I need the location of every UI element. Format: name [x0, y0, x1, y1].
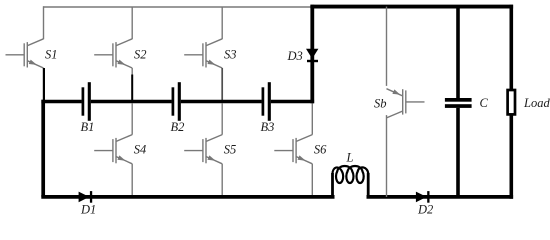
svg-text:L: L [346, 151, 354, 165]
transistor Sb (mirrored) [387, 89, 425, 118]
capacitor C [445, 5, 472, 197]
diode D3 [306, 49, 318, 62]
svg-text:D3: D3 [287, 49, 303, 63]
inductor L [333, 166, 369, 198]
wire: S3 collector vertical [221, 7, 223, 39]
wire: S1 collector vertical [43, 6, 45, 39]
wire: left branch vertical (thick) battery minus to bottom rail [41, 100, 45, 197]
wire: bottom rail left segment (thick) [41, 195, 334, 199]
wire: top rail (thin gray) from S1 to D3 branch [43, 6, 311, 8]
wire: S1 emitter to battery line (black) [43, 68, 45, 101]
wire: battery line down to S5 collector [221, 103, 223, 135]
svg-text:C: C [480, 96, 489, 110]
wire: Sb top to rail [386, 7, 388, 86]
transistor S1 [6, 39, 44, 68]
transistor S4 [94, 135, 132, 164]
svg-text:S1: S1 [45, 48, 58, 62]
transistor S3 [184, 39, 222, 68]
svg-text:S2: S2 [134, 48, 147, 62]
wire: S2 emitter to battery line [131, 68, 133, 76]
battery B3 [262, 82, 271, 121]
svg-text:B2: B2 [171, 120, 185, 134]
svg-text:B1: B1 [81, 120, 95, 134]
wire: S3 emitter to battery line [221, 68, 223, 101]
transistor S2 [94, 39, 132, 68]
wire: top rail thick black [310, 5, 513, 9]
wire: S6 emitter to bottom rail [311, 164, 313, 197]
svg-text:S4: S4 [134, 143, 147, 157]
wire: D3 to top rail (thick) [310, 5, 314, 50]
resistor Load [508, 5, 515, 199]
svg-text:D1: D1 [80, 203, 96, 217]
transistor S5 [184, 135, 222, 164]
wire: battery line down to S4 collector [131, 103, 133, 135]
svg-text:S3: S3 [224, 48, 237, 62]
battery B2 [172, 82, 181, 121]
transistor S6 [274, 135, 312, 164]
wire: bottom rail right segment (thick) [367, 195, 514, 199]
svg-text:Sb: Sb [374, 97, 387, 111]
diode D1 [79, 191, 93, 203]
svg-text:Load: Load [523, 96, 550, 110]
svg-text:D2: D2 [417, 203, 433, 217]
wire: Sb bottom to rail [386, 115, 388, 197]
wire: D3 junction down to S6 collector [311, 103, 313, 135]
wire: S5 emitter to bottom rail [221, 164, 223, 197]
wire: S4 emitter to bottom rail [131, 164, 133, 197]
battery B1 [82, 82, 91, 121]
wire: S2 collector vertical [131, 7, 133, 39]
diode D2 [416, 191, 430, 203]
node: battery string line (thick) [41, 100, 81, 104]
svg-text:S5: S5 [224, 143, 237, 157]
svg-text:B3: B3 [261, 120, 275, 134]
svg-text:S6: S6 [314, 143, 327, 157]
diode D3 branch: wire battery line to D3 anode (thick) [310, 50, 314, 104]
